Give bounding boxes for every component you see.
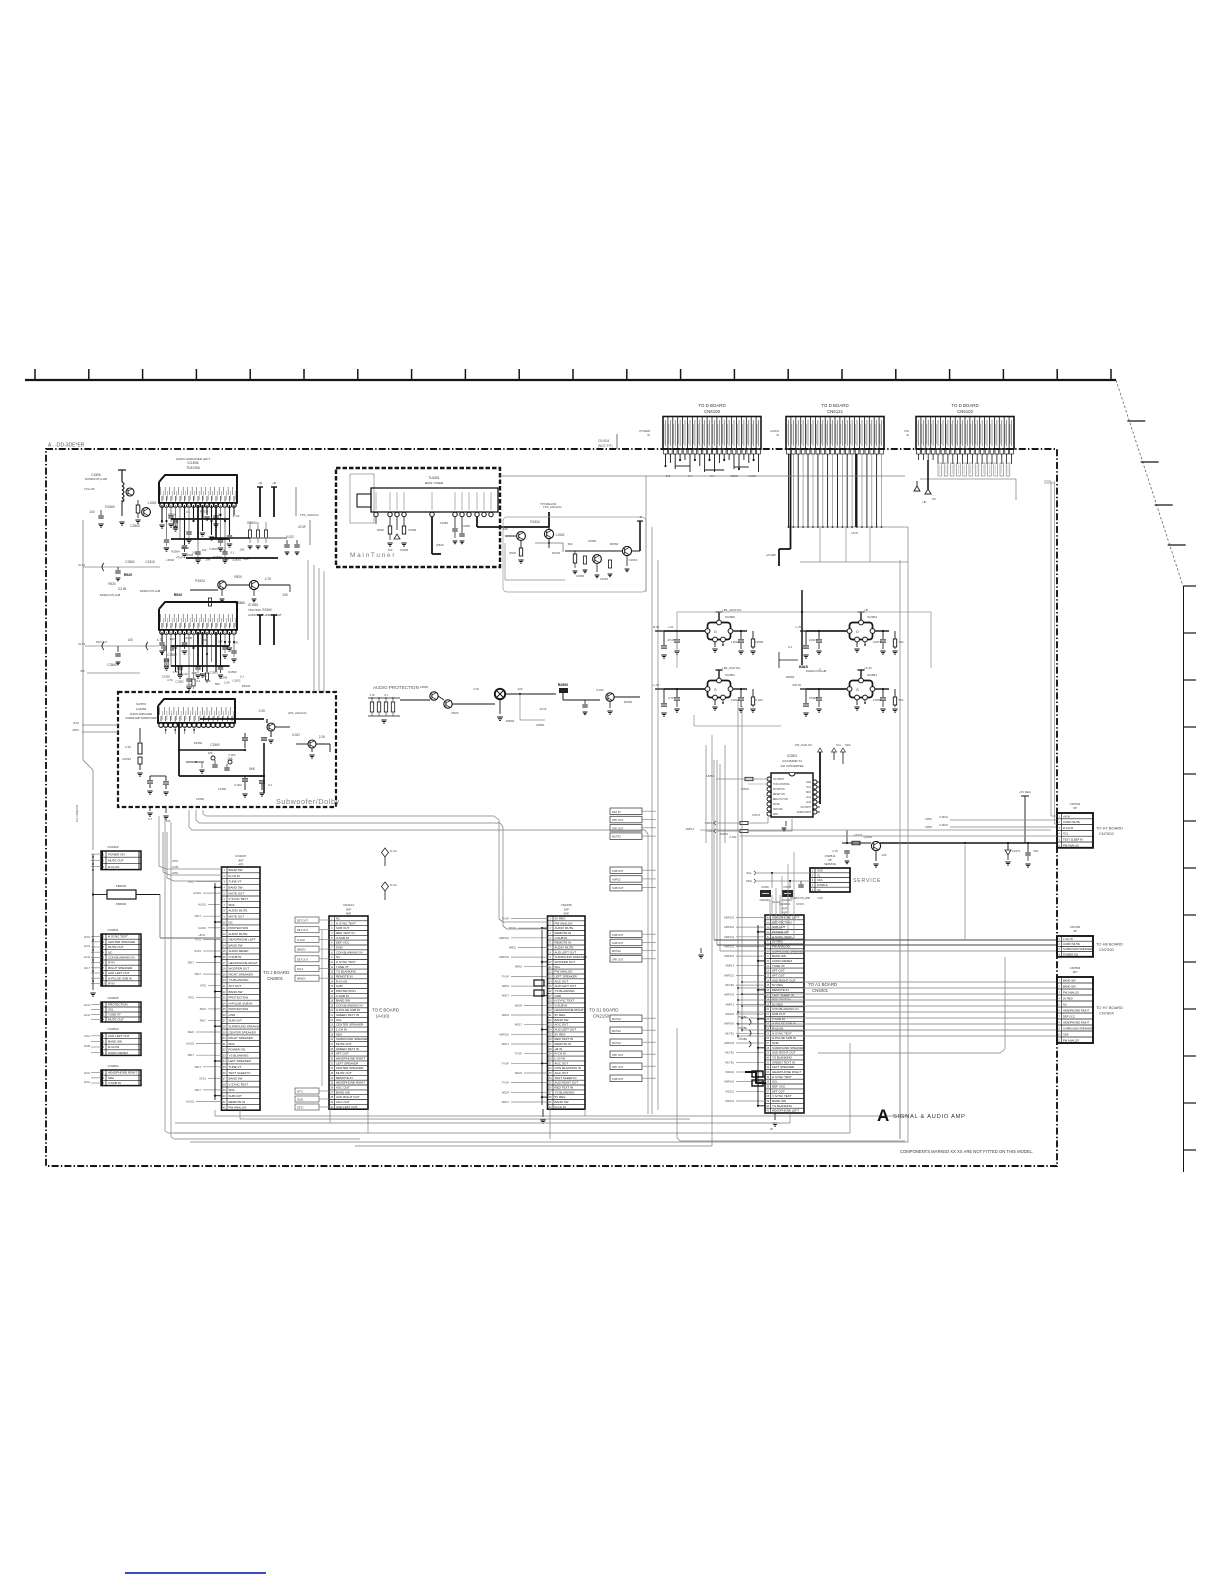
svg-text:TDA7266: TDA7266 xyxy=(186,466,200,470)
svg-text:C1506: C1506 xyxy=(408,528,417,532)
svg-text:SDA: SDA xyxy=(229,903,235,907)
svg-text:2.2K: 2.2K xyxy=(224,680,230,684)
svg-text:CN2150: CN2150 xyxy=(593,1014,610,1019)
svg-text:RESET ON: RESET ON xyxy=(773,794,785,796)
svg-text:56K: 56K xyxy=(249,767,256,771)
svg-text:CN1903: CN1903 xyxy=(107,845,118,849)
svg-text:SCL: SCL xyxy=(336,1018,342,1022)
svg-text:LEFT SPEAKER: LEFT SPEAKER xyxy=(555,974,578,978)
svg-text:UL61: UL61 xyxy=(84,1071,91,1075)
svg-text:AT51: AT51 xyxy=(172,859,179,863)
svg-text:5V REG: 5V REG xyxy=(555,1032,567,1036)
svg-text:+B: +B xyxy=(922,500,926,504)
svg-text:PROTECTION: PROTECTION xyxy=(229,996,249,1000)
svg-text:SCK1: SCK1 xyxy=(194,949,201,953)
svg-text:DET2: DET2 xyxy=(297,1107,304,1110)
svg-text:1UF: 1UF xyxy=(517,687,523,691)
svg-text:C1515: C1515 xyxy=(796,902,804,906)
svg-text:UL17: UL17 xyxy=(84,966,91,970)
svg-text:0.022: 0.022 xyxy=(596,688,604,692)
svg-text:MUTE: MUTE xyxy=(773,804,780,806)
svg-text:SIGNAL & AUDIO AMP: SIGNAL & AUDIO AMP xyxy=(893,1114,966,1120)
svg-text:DEF VCC: DEF VCC xyxy=(772,1085,786,1089)
svg-text:100: 100 xyxy=(202,638,207,642)
svg-text:TV-SF: TV-SF xyxy=(502,974,510,978)
svg-text:0.1: 0.1 xyxy=(268,783,273,787)
svg-text:CENTER SPEAKER: CENTER SPEAKER xyxy=(108,940,136,944)
svg-text:AUDIO AMPLIFIER: AUDIO AMPLIFIER xyxy=(130,712,153,716)
svg-text:MR51: MR51 xyxy=(502,984,509,988)
svg-text:AGC OUT: AGC OUT xyxy=(336,1100,350,1104)
svg-text:0.1: 0.1 xyxy=(218,512,222,516)
svg-text:SUB OUT: SUB OUT xyxy=(612,933,624,937)
svg-text:BAND SW: BAND SW xyxy=(336,1090,350,1094)
svg-text:+B IN: +B IN xyxy=(851,531,858,535)
svg-text:C1573: C1573 xyxy=(1012,849,1021,853)
svg-text:TUNE VT: TUNE VT xyxy=(108,1013,121,1017)
svg-text:LEFT SPEAKER: LEFT SPEAKER xyxy=(336,1061,359,1065)
svg-text:AUDIO MUTE: AUDIO MUTE xyxy=(229,932,248,936)
svg-text:PROTECTION: PROTECTION xyxy=(108,1003,128,1007)
svg-text:GND: GND xyxy=(555,994,563,998)
svg-text:A/D CONVERTER: A/D CONVERTER xyxy=(781,764,804,768)
svg-text:C2560: C2560 xyxy=(210,743,220,747)
svg-text:IC2570: IC2570 xyxy=(136,702,146,706)
svg-text:G: G xyxy=(714,688,717,692)
svg-text:C1573: C1573 xyxy=(873,640,882,644)
svg-text:MUTE2: MUTE2 xyxy=(612,949,621,953)
svg-text:IC2060: IC2060 xyxy=(725,615,735,619)
svg-text:UL51: UL51 xyxy=(73,721,80,725)
svg-text:AUDIO MUTE: AUDIO MUTE xyxy=(1063,820,1080,824)
svg-text:CENTER SPEAKER: CENTER SPEAKER xyxy=(229,1030,257,1034)
svg-text:C1582: C1582 xyxy=(588,539,597,543)
svg-text:100: 100 xyxy=(166,819,171,823)
svg-text:SUB OUT: SUB OUT xyxy=(612,1077,624,1081)
svg-text:SL: SL xyxy=(817,873,821,877)
svg-text:C1582: C1582 xyxy=(175,680,184,684)
svg-text:R1534: R1534 xyxy=(552,551,561,555)
svg-text:4.7K: 4.7K xyxy=(163,546,169,550)
svg-text:TV-SF: TV-SF xyxy=(502,1061,510,1065)
svg-text:BAND SW: BAND SW xyxy=(229,886,243,890)
svg-text:A . -DD-3DE*ER: A . -DD-3DE*ER xyxy=(48,443,85,449)
svg-text:TO E BOARD: TO E BOARD xyxy=(372,1008,399,1013)
svg-text:HEADPHONE LEFT: HEADPHONE LEFT xyxy=(772,1109,799,1113)
svg-text:BIAS: BIAS xyxy=(799,665,809,669)
svg-text:H SYNC TEXT: H SYNC TEXT xyxy=(772,1075,792,1079)
svg-text:R1534: R1534 xyxy=(242,684,251,688)
svg-text:CN2504: CN2504 xyxy=(107,1064,118,1068)
svg-text:AT51: AT51 xyxy=(188,995,195,999)
svg-text:SCL: SCL xyxy=(108,1008,114,1012)
svg-text:C1515: C1515 xyxy=(629,558,638,562)
svg-text:AV51: AV51 xyxy=(172,871,179,875)
svg-text:2.2K: 2.2K xyxy=(319,735,326,739)
svg-text:AU101: AU101 xyxy=(198,903,206,907)
svg-text:100: 100 xyxy=(202,548,207,552)
svg-text:+B4_ANALOG: +B4_ANALOG xyxy=(722,608,742,612)
svg-text:MUTE OUT: MUTE OUT xyxy=(336,1042,352,1046)
svg-text:V-SUB IN: V-SUB IN xyxy=(336,994,349,998)
svg-text:UR51: UR51 xyxy=(706,774,714,778)
svg-text:AGC OUT: AGC OUT xyxy=(336,1086,350,1090)
svg-text:R520: R520 xyxy=(108,582,116,586)
svg-text:AMP13: AMP13 xyxy=(725,1002,734,1006)
svg-text:FB2502: FB2502 xyxy=(116,902,127,906)
svg-text:CN8001: CN8001 xyxy=(267,976,284,981)
svg-text:SDA: SDA xyxy=(746,879,752,883)
svg-text:4.7K: 4.7K xyxy=(369,693,375,697)
svg-text:ON /PROT: ON /PROT xyxy=(773,779,785,781)
svg-text:R520: R520 xyxy=(509,551,516,555)
svg-text:4.7K: 4.7K xyxy=(832,849,838,853)
svg-text:BAND3: BAND3 xyxy=(297,978,306,981)
svg-text:M a i n T u n e r: M a i n T u n e r xyxy=(350,552,395,559)
svg-text:HEADPHONE RIGHT: HEADPHONE RIGHT xyxy=(555,1008,584,1012)
svg-text:R1534: R1534 xyxy=(122,757,131,761)
svg-text:DEF VCC: DEF VCC xyxy=(1063,1014,1075,1018)
svg-text:JW17: JW17 xyxy=(187,961,194,965)
svg-text:GREEN TEXT IN: GREEN TEXT IN xyxy=(336,1047,359,1051)
svg-text:SDA: SDA xyxy=(1063,1032,1069,1036)
svg-text:UL41: UL41 xyxy=(84,955,91,959)
svg-text:LA4282: LA4282 xyxy=(136,707,147,711)
svg-text:TV-SF: TV-SF xyxy=(502,1081,510,1085)
svg-text:CN6100: CN6100 xyxy=(704,409,721,414)
svg-text:L1502: L1502 xyxy=(731,640,739,644)
svg-text:PROBE: PROBE xyxy=(739,1016,748,1019)
svg-text:BAND3: BAND3 xyxy=(297,949,306,952)
svg-text:SPK OUT: SPK OUT xyxy=(612,818,624,822)
svg-text:JW21: JW21 xyxy=(187,1030,194,1034)
svg-text:SCL2: SCL2 xyxy=(297,968,304,971)
svg-text:+5V REG: +5V REG xyxy=(1019,790,1031,794)
svg-text:PW ANALOG: PW ANALOG xyxy=(1063,843,1079,847)
svg-text:POWER ON: POWER ON xyxy=(108,853,125,857)
svg-text:PROBE: PROBE xyxy=(739,1027,748,1030)
svg-text:PW_ANALOG: PW_ANALOG xyxy=(795,743,812,747)
svg-text:BAND SW: BAND SW xyxy=(229,943,243,947)
svg-text:POWER ON: POWER ON xyxy=(229,1048,246,1052)
svg-text:AUD LEFT OUT: AUD LEFT OUT xyxy=(555,1028,577,1032)
svg-text:AUDIO PROT: AUDIO PROT xyxy=(797,811,812,814)
svg-text:2.2K: 2.2K xyxy=(817,896,823,900)
svg-text:AMP141: AMP141 xyxy=(724,993,735,997)
svg-text:JW17: JW17 xyxy=(194,1088,201,1092)
svg-text:MUTE2: MUTE2 xyxy=(612,1029,621,1033)
svg-text:R1560: R1560 xyxy=(624,700,633,704)
svg-text:POWER AMP SUBWOOFER: POWER AMP SUBWOOFER xyxy=(125,717,156,720)
svg-text:TO D BOARD: TO D BOARD xyxy=(951,403,978,408)
svg-text:TDA7266: TDA7266 xyxy=(248,608,261,612)
svg-text:CENTER SPEAKER: CENTER SPEAKER xyxy=(336,1066,364,1070)
svg-text:NC: NC xyxy=(1063,1002,1067,1006)
svg-text:0.022: 0.022 xyxy=(292,733,300,737)
svg-text:AMP101: AMP101 xyxy=(499,955,510,959)
svg-text:BAND SW: BAND SW xyxy=(108,1040,122,1044)
svg-text:RED TEXT IN: RED TEXT IN xyxy=(555,1086,574,1090)
svg-text:UL99: UL99 xyxy=(84,1044,91,1048)
svg-text:C2560: C2560 xyxy=(536,723,545,727)
svg-text:RIGHT SPEAKER: RIGHT SPEAKER xyxy=(229,972,254,976)
svg-text:IN: IN xyxy=(647,433,650,437)
svg-text:PW ANALOG: PW ANALOG xyxy=(1063,1038,1079,1042)
svg-text:JW21: JW21 xyxy=(187,880,194,884)
svg-text:L-CH IN: L-CH IN xyxy=(336,1028,347,1032)
svg-text:R2504: R2504 xyxy=(171,550,180,554)
svg-text:SCL: SCL xyxy=(1063,832,1069,836)
svg-text:BELL/TILT NR: BELL/TILT NR xyxy=(773,799,788,801)
svg-text:0.1: 0.1 xyxy=(384,693,388,697)
svg-text:SCL: SCL xyxy=(836,743,842,747)
svg-text:L-CH IN: L-CH IN xyxy=(555,1057,566,1061)
svg-text:C3508: C3508 xyxy=(783,885,791,889)
svg-text:R-CH IN: R-CH IN xyxy=(555,1105,566,1109)
svg-text:MUTE2: MUTE2 xyxy=(612,835,621,839)
svg-text:GND: GND xyxy=(772,1041,780,1045)
svg-text:SERVICE: SERVICE xyxy=(824,862,836,866)
svg-text:AFT1: AFT1 xyxy=(297,1091,304,1094)
svg-text:GND: GND xyxy=(229,1013,237,1017)
svg-text:AUDIO MUTE: AUDIO MUTE xyxy=(555,946,574,950)
svg-text:RED TEXT IN: RED TEXT IN xyxy=(772,998,791,1002)
svg-text:11P: 11P xyxy=(1073,970,1078,974)
svg-text:TO D BOARD: TO D BOARD xyxy=(698,403,725,408)
svg-text:C1506: C1506 xyxy=(185,553,194,557)
svg-text:IN: IN xyxy=(776,433,779,437)
svg-text:WD24: WD24 xyxy=(502,1090,510,1094)
svg-text:TO H8 BOARD: TO H8 BOARD xyxy=(1096,941,1123,946)
svg-text:IF IN: IF IN xyxy=(108,961,115,965)
svg-text:AMP141: AMP141 xyxy=(724,1022,735,1026)
svg-text:+B: +B xyxy=(272,481,276,485)
svg-text:TEXT SLEEP IN: TEXT SLEEP IN xyxy=(1063,838,1083,842)
svg-text:AUD LEFT OUT: AUD LEFT OUT xyxy=(555,984,577,988)
svg-text:V SYNC TEXT: V SYNC TEXT xyxy=(772,1094,792,1098)
svg-text:56K: 56K xyxy=(1034,849,1039,853)
svg-text:100: 100 xyxy=(127,638,133,642)
svg-text:BAND SW: BAND SW xyxy=(229,990,243,994)
svg-text:SUB OUT: SUB OUT xyxy=(612,886,624,890)
svg-text:TO H7 BOARD: TO H7 BOARD xyxy=(1096,1005,1123,1010)
svg-text:(A410): (A410) xyxy=(376,1014,390,1019)
svg-text:0.022: 0.022 xyxy=(286,535,294,539)
svg-text:C1582: C1582 xyxy=(755,640,764,644)
svg-text:R2560: R2560 xyxy=(558,683,569,687)
svg-text:MUTE OUT: MUTE OUT xyxy=(108,945,124,949)
svg-text:L1502: L1502 xyxy=(166,558,174,562)
svg-text:AU101: AU101 xyxy=(198,926,206,930)
svg-text:CN-B04: CN-B04 xyxy=(598,439,610,443)
svg-text:41P: 41P xyxy=(782,911,787,915)
svg-text:+B4_DIGITAL: +B4_DIGITAL xyxy=(722,666,741,670)
svg-text:POWER ON: POWER ON xyxy=(1063,952,1078,956)
svg-text:SUB OUT: SUB OUT xyxy=(612,869,624,873)
svg-text:GREEN TEXT IN: GREEN TEXT IN xyxy=(772,1060,795,1064)
svg-text:C1582: C1582 xyxy=(218,787,227,791)
svg-text:AMP12: AMP12 xyxy=(685,827,694,831)
svg-text:R520: R520 xyxy=(377,528,384,532)
svg-text:C2560: C2560 xyxy=(209,671,218,675)
svg-text:AMP131: AMP131 xyxy=(724,954,735,958)
svg-text:C-BUS: C-BUS xyxy=(939,815,948,819)
svg-text:C1506: C1506 xyxy=(219,676,228,680)
svg-text:4.7K: 4.7K xyxy=(167,678,173,682)
svg-text:J51: J51 xyxy=(80,669,85,673)
svg-text:UL31: UL31 xyxy=(84,1003,91,1007)
svg-text:JW21: JW21 xyxy=(199,1007,206,1011)
svg-text:C1573: C1573 xyxy=(752,813,760,817)
svg-text:G: G xyxy=(856,688,859,692)
svg-text:AGC OUT: AGC OUT xyxy=(555,1023,569,1027)
svg-text:HP4_ANALOG: HP4_ANALOG xyxy=(288,711,307,715)
svg-text:SURROUND SPEAKER: SURROUND SPEAKER xyxy=(1063,1026,1092,1030)
svg-text:NC PROT: NC PROT xyxy=(801,807,812,809)
svg-text:SUB OUT: SUB OUT xyxy=(229,1019,243,1023)
svg-text:R-CH IN: R-CH IN xyxy=(229,874,240,878)
svg-text:CENTER SPEAKER: CENTER SPEAKER xyxy=(336,1023,364,1027)
svg-text:CON BLANKING IN: CON BLANKING IN xyxy=(336,1003,363,1007)
svg-text:R2504: R2504 xyxy=(168,512,177,516)
svg-text:SUB OUT: SUB OUT xyxy=(772,925,786,929)
svg-text:R520: R520 xyxy=(436,543,444,547)
svg-text:TUNE VT: TUNE VT xyxy=(772,964,785,968)
svg-text:C1582: C1582 xyxy=(809,696,818,700)
svg-text:HEADPHONE RIGHT: HEADPHONE RIGHT xyxy=(229,961,258,965)
svg-text:AGC OUT: AGC OUT xyxy=(555,1071,569,1075)
svg-text:H-PULSE SUB IN: H-PULSE SUB IN xyxy=(336,1008,360,1012)
svg-text:H-PULSE SUB IN: H-PULSE SUB IN xyxy=(772,1036,796,1040)
svg-text:+B IN: +B IN xyxy=(198,933,205,937)
svg-text:SSD OFF: SSD OFF xyxy=(773,809,784,811)
svg-text:HEADPHONE RIGHT: HEADPHONE RIGHT xyxy=(1063,1020,1089,1024)
svg-text:IN: IN xyxy=(906,433,909,437)
svg-text:V-SUB IN: V-SUB IN xyxy=(336,936,349,940)
svg-text:TCM CONTROL: TCM CONTROL xyxy=(773,784,791,786)
svg-text:R-CH: R-CH xyxy=(390,883,397,887)
svg-text:TO J BOARD: TO J BOARD xyxy=(263,970,289,975)
svg-text:1UF: 1UF xyxy=(217,640,223,644)
svg-text:AMP13: AMP13 xyxy=(612,878,621,882)
svg-text:5V REG: 5V REG xyxy=(555,1013,567,1017)
svg-text:BAND SW: BAND SW xyxy=(229,868,243,872)
svg-text:0.1: 0.1 xyxy=(196,679,200,683)
svg-text:5V REG: 5V REG xyxy=(555,1095,567,1099)
svg-text:R-CH IN: R-CH IN xyxy=(108,1045,119,1049)
svg-text:COMPONENTS MARKED XX XX ARE NO: COMPONENTS MARKED XX XX ARE NOT FITTED O… xyxy=(900,1149,1033,1154)
svg-text:C2 W: C2 W xyxy=(118,587,126,591)
svg-text:AUD LEFT OUT: AUD LEFT OUT xyxy=(336,1105,358,1109)
svg-text:C1506: C1506 xyxy=(184,636,193,640)
svg-text:WD131: WD131 xyxy=(725,1089,734,1093)
svg-text:SDA: SDA xyxy=(806,781,811,784)
svg-text:AUD LEFT OUT: AUD LEFT OUT xyxy=(555,950,577,954)
svg-text:CN7200: CN7200 xyxy=(1099,947,1114,952)
svg-text:PROBE: PROBE xyxy=(739,1038,748,1041)
svg-text:PROTECTION: PROTECTION xyxy=(229,1007,249,1011)
svg-text:56K: 56K xyxy=(898,698,903,702)
svg-text:YS BLANKING: YS BLANKING xyxy=(336,970,357,974)
svg-text:SCL: SCL xyxy=(555,965,561,969)
svg-text:C2560: C2560 xyxy=(196,797,205,801)
svg-text:40P: 40P xyxy=(346,912,351,916)
svg-text:0.1: 0.1 xyxy=(148,817,152,821)
svg-text:+B: +B xyxy=(864,608,868,612)
svg-text:DASD(CUT)-LHB: DASD(CUT)-LHB xyxy=(806,669,826,673)
svg-text:SUB OUT: SUB OUT xyxy=(229,1094,243,1098)
svg-text:UL51: UL51 xyxy=(84,935,91,939)
svg-text:+B: +B xyxy=(258,481,262,485)
svg-text:IF IN: IF IN xyxy=(108,982,115,986)
svg-text:0.1: 0.1 xyxy=(788,645,792,649)
svg-text:R520: R520 xyxy=(174,593,183,597)
svg-text:2.2K: 2.2K xyxy=(192,671,198,675)
svg-text:US51: US51 xyxy=(706,829,714,833)
svg-text:HEADPHONE RIGHT: HEADPHONE RIGHT xyxy=(772,1070,801,1074)
svg-text:C1515: C1515 xyxy=(209,547,218,551)
svg-text:5V REG: 5V REG xyxy=(555,917,567,921)
svg-text:MUTE2: MUTE2 xyxy=(612,1017,621,1021)
svg-text:47P: 47P xyxy=(238,863,243,867)
svg-text:AGC OUT: AGC OUT xyxy=(555,979,569,983)
svg-text:DA1: DA1 xyxy=(807,796,812,799)
svg-text:REMOTE IN: REMOTE IN xyxy=(555,1042,572,1046)
svg-text:SPK OUT: SPK OUT xyxy=(612,1053,624,1057)
svg-text:CON BLANKING IN: CON BLANKING IN xyxy=(108,956,135,960)
svg-text:C1515: C1515 xyxy=(145,560,155,564)
svg-text:BAND SW: BAND SW xyxy=(772,1099,786,1103)
svg-text:H SYNC TEXT: H SYNC TEXT xyxy=(336,921,356,925)
svg-text:WD24: WD24 xyxy=(502,1013,510,1017)
svg-text:CN7002: CN7002 xyxy=(1099,831,1114,836)
svg-text:R-CH IN: R-CH IN xyxy=(336,979,347,983)
svg-text:CON BLANKING IN: CON BLANKING IN xyxy=(772,1007,799,1011)
svg-text:AT51: AT51 xyxy=(200,984,207,988)
svg-text:DET OUT: DET OUT xyxy=(297,920,308,923)
svg-text:AMP141: AMP141 xyxy=(724,935,735,939)
svg-text:WD17: WD17 xyxy=(515,1023,523,1027)
svg-text:+B IN: +B IN xyxy=(1063,814,1070,818)
svg-text:SCL: SCL xyxy=(807,787,812,789)
svg-text:C1582: C1582 xyxy=(167,653,177,657)
svg-text:BAND SW: BAND SW xyxy=(1063,984,1076,988)
svg-text:PROTECTION: PROTECTION xyxy=(336,989,356,993)
svg-text:TO A1 BOARD: TO A1 BOARD xyxy=(808,982,837,987)
svg-text:C2560: C2560 xyxy=(462,524,471,528)
svg-text:SW-IN: SW-IN xyxy=(792,683,801,687)
svg-text:SCL: SCL xyxy=(772,1080,778,1084)
svg-text:47UF: 47UF xyxy=(298,525,306,529)
svg-text:BAND SW: BAND SW xyxy=(336,999,350,1003)
svg-text:AUDIO MUTE: AUDIO MUTE xyxy=(555,926,574,930)
svg-text:MUTE1: MUTE1 xyxy=(725,1031,734,1035)
svg-text:TV-SF: TV-SF xyxy=(515,1052,523,1056)
svg-text:SDA: SDA xyxy=(229,1042,235,1046)
svg-text:PW ANALOG: PW ANALOG xyxy=(1063,990,1079,994)
svg-text:SERVICE: SERVICE xyxy=(853,878,881,884)
svg-text:TEXT SLEEP IN: TEXT SLEEP IN xyxy=(772,993,794,997)
svg-text:AU101: AU101 xyxy=(193,891,201,895)
svg-text:SDA: SDA xyxy=(229,1088,235,1092)
svg-text:1UF: 1UF xyxy=(881,853,887,857)
svg-text:BAND SW: BAND SW xyxy=(772,954,786,958)
svg-text:TUNE VT: TUNE VT xyxy=(336,965,349,969)
svg-text:C1515: C1515 xyxy=(600,577,609,581)
svg-text:AMP11: AMP11 xyxy=(720,832,729,836)
svg-text:2.2K: 2.2K xyxy=(182,672,188,676)
svg-text:TEXT SLEEP IN: TEXT SLEEP IN xyxy=(555,1076,577,1080)
